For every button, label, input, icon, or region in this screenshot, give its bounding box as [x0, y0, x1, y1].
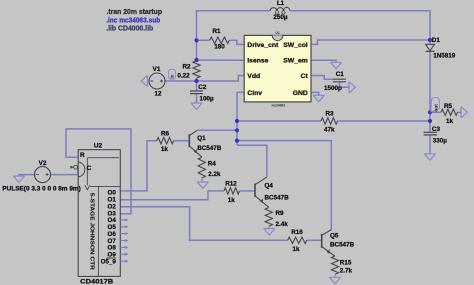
- ground C2: [191, 103, 202, 109]
- wire O0 to R6: [120, 141, 156, 191]
- svg-text:SW_col: SW_col: [283, 42, 308, 49]
- wire O3 to R input loop: [66, 129, 131, 214]
- svg-text:in: in: [170, 74, 175, 78]
- op-amp U1 MC34063 box: [244, 35, 311, 102]
- wire D1 cathode to out node to C3: [429, 51, 431, 132]
- svg-text:L1: L1: [277, 0, 285, 7]
- wire top supply bus right: [290, 11, 430, 41]
- svg-text:1N5819: 1N5819: [433, 53, 456, 60]
- node junction bus-Isense: [194, 58, 198, 62]
- svg-text:1k: 1k: [161, 146, 169, 153]
- node junction Cinv-Q5: [235, 139, 239, 143]
- wire V2 minus to ground: [19, 175, 35, 176]
- wire D1 anode: [429, 40, 431, 44]
- svg-text:CD4017B: CD4017B: [80, 278, 113, 285]
- svg-text:D1: D1: [432, 37, 441, 44]
- resistor R2: [193, 61, 200, 78]
- wire R9 to ground: [268, 226, 271, 228]
- wire R1 to bus: [197, 39, 210, 41]
- resistor R3: [321, 118, 338, 124]
- svg-text:2.7k: 2.7k: [340, 268, 353, 275]
- wire node to Vdd pin: [197, 76, 245, 82]
- ground R9: [264, 229, 275, 235]
- wire SW_col to D1 node: [311, 40, 430, 44]
- svg-text:180: 180: [214, 44, 225, 51]
- wire Cinv pin vertical bus: [237, 92, 244, 145]
- svg-text:.tran 20m startup: .tran 20m startup: [107, 9, 163, 16]
- voltage source V2: [35, 167, 51, 183]
- svg-text:12: 12: [154, 90, 162, 97]
- node junction Cinv-Q1: [235, 128, 239, 132]
- svg-text:GND: GND: [293, 90, 308, 97]
- wire R6 to Q1 base: [174, 140, 190, 142]
- wire O1 to R12: [120, 191, 224, 200]
- wire R15 to ground: [334, 274, 336, 277]
- svg-text:1k: 1k: [446, 118, 454, 125]
- svg-text:BC547B: BC547B: [330, 242, 355, 249]
- svg-text:Isense: Isense: [247, 58, 268, 65]
- pins O0-O9 O5_9 stubs: [120, 220, 126, 261]
- wire bus R2 bottom node: [196, 78, 198, 91]
- wire bus to Q4 collector: [237, 145, 267, 177]
- svg-text:2.2k: 2.2k: [208, 171, 221, 178]
- svg-text:mc34063: mc34063: [271, 103, 285, 107]
- capacitor C2: [190, 91, 203, 94]
- svg-text:.inc mc34063.sub: .inc mc34063.sub: [106, 17, 160, 24]
- wire R5 to ground: [458, 111, 462, 113]
- wire Isense pin to bus: [197, 59, 245, 61]
- svg-text:BC547B: BC547B: [265, 194, 290, 201]
- svg-text:O5_9: O5_9: [101, 258, 117, 265]
- svg-text:Ct: Ct: [301, 73, 309, 80]
- svg-text:R5: R5: [444, 103, 453, 110]
- svg-text:330µ: 330µ: [433, 138, 448, 145]
- svg-text:U2: U2: [94, 143, 103, 150]
- resistor R5: [441, 109, 458, 115]
- node out junction R5: [428, 110, 432, 114]
- node in junction V1/R2/C2/Vdd: [194, 79, 198, 83]
- ground GND pin: [313, 95, 324, 101]
- node junction D1-SWcol: [428, 38, 432, 42]
- net flag out: [431, 97, 440, 112]
- svg-text:R4: R4: [208, 161, 217, 168]
- svg-text:V2: V2: [39, 160, 47, 167]
- wire R4 to ground: [201, 178, 204, 182]
- wire O2 to R16: [120, 207, 287, 241]
- wire R3 left to Cinv bus: [237, 120, 321, 122]
- svg-text:C2: C2: [198, 84, 207, 91]
- wire Ct to C1: [311, 76, 333, 80]
- svg-text:R9: R9: [276, 210, 285, 217]
- ground V1: [141, 75, 147, 86]
- wire R1 to Drive_cnt pin: [229, 40, 244, 44]
- svg-text:250µ: 250µ: [273, 14, 288, 21]
- wire V1 plus to node: [165, 80, 197, 82]
- transistor Q1: [188, 134, 190, 147]
- svg-text:C1: C1: [336, 71, 345, 78]
- ground V2: [13, 176, 24, 182]
- resistor R1: [210, 37, 230, 43]
- ground C1: [349, 82, 355, 93]
- svg-text:C: C: [87, 165, 92, 172]
- svg-text:R: R: [80, 152, 85, 159]
- transistor Q5: [321, 234, 323, 248]
- voltage source V1: [149, 73, 165, 89]
- svg-text:1500p: 1500p: [324, 85, 342, 92]
- svg-text:R12: R12: [225, 181, 237, 188]
- ground R15: [329, 277, 340, 283]
- svg-text:Q4: Q4: [265, 182, 274, 189]
- svg-text:R16: R16: [291, 229, 303, 236]
- wire Q1 collector to bus: [197, 129, 237, 131]
- resistor R4: [198, 157, 205, 178]
- ground R4: [197, 182, 208, 188]
- capacitor C1: [333, 79, 346, 82]
- node junction out-R3: [428, 119, 432, 123]
- svg-text:out: out: [433, 104, 439, 112]
- svg-text:.lib CD4000.lib: .lib CD4000.lib: [106, 25, 153, 32]
- wire C2 to ground: [196, 94, 198, 103]
- node junction bus-R1: [194, 38, 198, 42]
- svg-text:1k: 1k: [228, 197, 236, 204]
- svg-text:BC547B: BC547B: [197, 145, 222, 152]
- wire R16 to Q5 base: [307, 239, 322, 241]
- resistor R6: [157, 138, 174, 144]
- wire out node to R5: [430, 111, 441, 113]
- svg-text:47k: 47k: [324, 127, 335, 134]
- svg-text:Vdd: Vdd: [247, 73, 260, 80]
- svg-text:2.4k: 2.4k: [276, 221, 289, 228]
- svg-text:1k: 1k: [292, 246, 300, 253]
- svg-text:V1: V1: [153, 66, 161, 73]
- svg-text:R1: R1: [212, 28, 221, 35]
- resistor R12: [224, 188, 240, 194]
- node junction Cinv-R3: [235, 119, 239, 123]
- ground R5: [461, 107, 467, 118]
- resistor R16: [288, 237, 307, 243]
- svg-text:R2: R2: [183, 64, 192, 71]
- clock input bubble: [70, 166, 74, 169]
- resistor R9: [265, 208, 272, 227]
- wire R3 right to out node: [338, 120, 431, 122]
- svg-text:0.22: 0.22: [177, 72, 190, 79]
- svg-text:Q5: Q5: [330, 232, 339, 239]
- wire top supply bus left: [197, 11, 271, 62]
- wire C1 to ground: [340, 82, 350, 88]
- svg-text:R3: R3: [325, 111, 334, 118]
- wire C3 to ground: [429, 135, 431, 154]
- wire V2 plus to clock input: [51, 167, 78, 174]
- diode D1: [426, 44, 435, 50]
- svg-text:5-STAGE JOHNSON CTR: 5-STAGE JOHNSON CTR: [88, 193, 94, 271]
- wire bus to Q5 collector: [237, 141, 331, 230]
- ground SW_em: [330, 62, 341, 68]
- inductor L1: [270, 7, 290, 10]
- resistor R15: [331, 256, 338, 274]
- net flag in: [169, 69, 176, 80]
- svg-text:C3: C3: [432, 126, 441, 133]
- svg-text:U1: U1: [275, 31, 279, 35]
- transistor Q4: [254, 183, 256, 197]
- capacitor C3: [424, 132, 438, 135]
- ground C3: [424, 154, 435, 160]
- svg-text:PULSE(0 3.3 0 0 0 8m 9m): PULSE(0 3.3 0 0 0 8m 9m): [2, 185, 81, 192]
- svg-text:Q1: Q1: [197, 135, 206, 142]
- wire R12 to Q4 base: [240, 190, 256, 192]
- svg-text:R6: R6: [161, 131, 170, 138]
- svg-text:Cinv: Cinv: [247, 90, 262, 97]
- svg-text:SW_em: SW_em: [283, 58, 308, 65]
- wire GND pin to ground: [311, 92, 319, 95]
- svg-text:Drive_cnt: Drive_cnt: [247, 42, 279, 49]
- counter U2 CD4017B box: [78, 150, 120, 277]
- svg-text:100µ: 100µ: [200, 95, 215, 102]
- svg-text:R15: R15: [340, 260, 352, 267]
- wire SW_em to ground: [311, 60, 336, 62]
